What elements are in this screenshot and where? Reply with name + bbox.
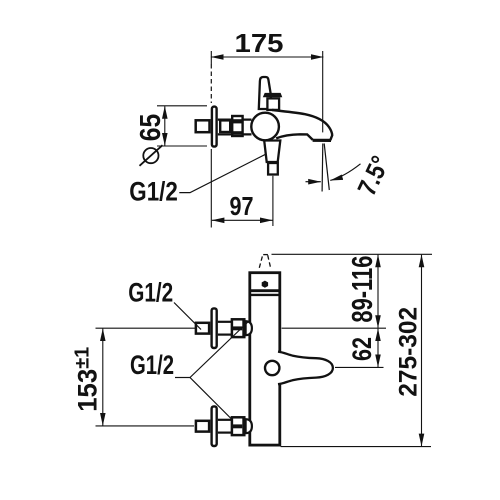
- wire: bottom extension line: [281, 446, 431, 448]
- wire: leader fork to top inlet nut: [190, 320, 250, 378]
- dimension 89-116: [377, 255, 379, 328]
- flange (top view): [212, 107, 217, 147]
- svg-text:97: 97: [230, 191, 254, 221]
- wire: top extension line: [272, 253, 433, 255]
- pipe neck (top view): [218, 118, 252, 120]
- inlet bottom: cap: [246, 419, 252, 433]
- inlet bottom: wall block: [196, 421, 209, 432]
- svg-text:G1/2: G1/2: [130, 350, 174, 380]
- wire: leader fork to bottom inlet nut: [190, 378, 232, 420]
- svg-text:7.5°: 7.5°: [351, 151, 395, 200]
- inlet bottom: flange: [212, 406, 217, 446]
- body cap line 1: [249, 289, 282, 292]
- svg-text:62: 62: [347, 337, 377, 361]
- wire: dashed center line of wall union: [210, 64, 212, 103]
- svg-text:89-116: 89-116: [347, 256, 379, 323]
- inlet top: union nut: [232, 319, 244, 337]
- dimension 175: [211, 56, 324, 58]
- screw hexagon: [262, 281, 268, 288]
- dimension 97: [212, 219, 273, 221]
- wire: extension line top of 65: [157, 105, 207, 107]
- hand-shower nozzle (top view): [268, 163, 278, 175]
- bonnet bar (top view): [263, 93, 283, 97]
- coupling (top view): [220, 120, 230, 132]
- body cap line 2: [249, 294, 282, 296]
- lever (front view) outline: [278, 352, 333, 385]
- wire: leader tick: [175, 377, 190, 379]
- dimension 275-302: [421, 255, 423, 447]
- svg-text:G1/2: G1/2: [128, 278, 173, 308]
- body column: [250, 273, 280, 445]
- union nut (top view): [232, 116, 242, 136]
- svg-text:65: 65: [135, 114, 167, 142]
- inlet bottom: union nut: [232, 417, 244, 435]
- angle reference line tilted: [324, 144, 329, 191]
- wire: left extension bottom (153): [96, 425, 195, 427]
- svg-text:275-302: 275-302: [395, 307, 423, 397]
- spout (top view): [272, 110, 332, 140]
- cartridge lever (top view): [259, 77, 271, 109]
- angle dimension arc: [330, 164, 360, 181]
- inlet bottom: neck: [218, 419, 232, 421]
- lever (front view) fill: [278, 352, 333, 385]
- inlet top: wall block: [196, 323, 209, 334]
- wire: left extension top (153): [96, 327, 196, 329]
- wire: leader to top inlet block: [174, 303, 201, 330]
- lever circle: [265, 361, 279, 375]
- angle dimension tail arrow: [306, 181, 321, 183]
- inlet top: neck: [218, 321, 232, 323]
- wire: extension line bottom of 65: [157, 145, 207, 147]
- wire: leader G1/2 to outlet: [179, 151, 272, 193]
- dimension 65: [164, 106, 166, 145]
- diameter symbol: [143, 148, 158, 163]
- inlet top: flange: [212, 308, 217, 348]
- angle reference line vertical: [321, 144, 324, 192]
- wire: left extension line below flange: [210, 149, 212, 228]
- wall block (top view): [196, 120, 210, 132]
- wire: mid extension line (inlet axis): [282, 327, 386, 329]
- spout aerator: [313, 139, 331, 142]
- inlet top: cap: [246, 321, 252, 335]
- svg-text:153±1: 153±1: [72, 347, 103, 412]
- neck box (top view): [267, 98, 279, 110]
- dashed shower-hose holder: [259, 255, 262, 267]
- wire: left extension / center line: [210, 51, 212, 64]
- valve body circle (top view): [251, 113, 279, 141]
- svg-text:175: 175: [235, 28, 284, 58]
- wire: right extension of 97: [272, 176, 274, 226]
- svg-text:G1/2: G1/2: [129, 177, 178, 207]
- dimension 153+-1: [102, 329, 104, 426]
- dimension 62: [377, 329, 379, 367]
- hand-shower outlet cone (top view): [264, 141, 280, 163]
- wire: right extension line of 175: [322, 51, 324, 132]
- wire: lever extension line: [335, 366, 384, 368]
